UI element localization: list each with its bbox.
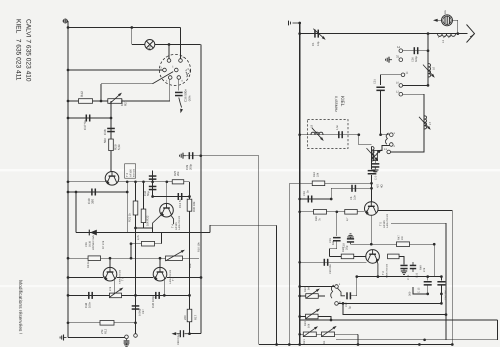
wire feedback row	[68, 294, 190, 296]
wire terminal 10	[403, 84, 428, 86]
junction	[342, 302, 345, 305]
junction	[456, 32, 459, 35]
wire IF column x111	[110, 101, 112, 172]
wire joining columns	[136, 227, 153, 229]
wire to terminal b	[135, 323, 137, 334]
wire bottom bus	[259, 344, 453, 346]
junction	[427, 84, 430, 87]
wire R22 row	[300, 295, 325, 297]
inductor L1 coil	[438, 34, 456, 37]
wire pin 2 to pot	[378, 146, 390, 151]
ground C39	[180, 153, 186, 159]
capacitor C40	[91, 189, 96, 196]
junction	[134, 227, 137, 230]
junction	[142, 180, 145, 183]
wire column x276 vertical	[276, 225, 278, 344]
junction	[427, 32, 430, 35]
wire to lamp	[132, 44, 145, 46]
svg-text:390: 390	[91, 199, 95, 204]
resistor R27 box	[108, 99, 122, 104]
junction	[440, 302, 443, 305]
svg-text:A 805 703 023: A 805 703 023	[386, 213, 389, 228]
DIN pin top-left	[167, 59, 171, 63]
svg-text:R17: R17	[194, 314, 198, 320]
wire main vertical x299	[299, 23, 301, 345]
wire R42 R27 row	[68, 100, 170, 102]
junction	[130, 26, 133, 29]
capacitor C41	[149, 175, 157, 180]
capacitor filter	[338, 131, 343, 138]
wire R9 volume row	[68, 257, 199, 259]
IF filter box KIEL 0.455MHz (dashed)	[308, 120, 349, 149]
wire L8 to C5	[371, 161, 373, 170]
wire T6 emitter row	[300, 261, 367, 263]
svg-text:L7: L7	[428, 121, 432, 125]
junction	[379, 133, 382, 136]
transformer pin 2	[390, 143, 394, 147]
pot R23 box	[306, 314, 319, 319]
junction	[298, 295, 301, 298]
svg-text:LA1: LA1	[148, 45, 152, 51]
svg-text:L1: L1	[441, 39, 445, 43]
wire T5 base row	[300, 211, 365, 213]
capacitor C49 to ground	[124, 339, 130, 347]
wire bus to DIN left pin	[68, 69, 163, 71]
svg-text:50µ: 50µ	[146, 191, 150, 196]
zener diode D1 BZY88	[89, 230, 97, 236]
wire T4 collector lead	[171, 216, 173, 224]
svg-text:L9: L9	[310, 124, 314, 128]
wire bottom corner to x201	[190, 333, 202, 335]
junction	[126, 191, 129, 194]
transistor T4	[160, 203, 174, 217]
label box T3	[125, 164, 136, 178]
capacitor C18	[347, 238, 354, 243]
wire T7 base up	[159, 258, 161, 267]
wire C37 row	[68, 117, 111, 119]
svg-text:AF106: AF106	[130, 169, 133, 177]
svg-text:KIEL: KIEL	[339, 96, 345, 107]
svg-text:4Ω: 4Ω	[380, 184, 384, 188]
ground C21	[401, 271, 407, 274]
junction	[134, 180, 137, 183]
svg-text:C20 63n: C20 63n	[329, 264, 332, 274]
junction	[151, 195, 154, 198]
junction	[445, 313, 448, 316]
transformer pin 1	[390, 133, 394, 137]
junction	[330, 319, 333, 322]
junction	[67, 117, 70, 120]
capacitor C6	[351, 185, 356, 192]
wire osc bus c	[167, 277, 201, 279]
junction	[113, 294, 116, 297]
junction	[298, 315, 301, 318]
wire right vertical x452	[451, 210, 453, 344]
wire C36 wiper lead	[179, 98, 182, 108]
ground below C32	[374, 167, 376, 169]
wire main vertical x201	[200, 45, 202, 334]
capacitor C44	[178, 193, 183, 200]
connector symbol top center	[289, 21, 300, 26]
wire C19 column	[336, 212, 338, 236]
svg-text:C 15: C 15	[418, 287, 421, 293]
junction	[67, 26, 70, 29]
wire to detector row	[433, 244, 435, 276]
svg-text:R30 33k: R30 33k	[192, 201, 196, 212]
capacitor C15	[424, 281, 432, 286]
transistor T3	[105, 172, 119, 186]
wire right vertical x446	[445, 223, 447, 340]
lamp LA1 dial illumination	[145, 40, 155, 50]
svg-text:L8: L8	[375, 152, 379, 156]
resistor R32 box	[141, 209, 146, 223]
svg-text:50n: 50n	[103, 138, 107, 143]
wire terminal 14 to C30	[403, 50, 428, 52]
svg-text:31: 31	[396, 55, 400, 59]
junction	[67, 191, 70, 194]
svg-text:Modifications réservées !: Modifications réservées !	[17, 280, 23, 334]
junction	[75, 191, 78, 194]
svg-text:25µ: 25µ	[346, 245, 349, 250]
wire pin1b to C17	[338, 288, 346, 296]
wire R8 row	[131, 243, 162, 245]
wire to C21	[399, 256, 404, 264]
wire C31 to IF row	[380, 91, 382, 135]
resistor R42 box	[79, 99, 93, 104]
svg-text:20k: 20k	[176, 171, 180, 176]
svg-text:63n: 63n	[332, 240, 335, 245]
junction	[67, 69, 70, 72]
junction	[188, 195, 191, 198]
wire R12 row	[68, 322, 136, 324]
wire to DIN pin 1	[168, 45, 170, 59]
junction	[370, 187, 373, 190]
inductor L8 coil	[372, 147, 375, 162]
resistor R27b box	[345, 210, 358, 215]
wire lamp to main vertical	[155, 44, 201, 46]
wire C5 to T5 collector	[371, 175, 373, 202]
svg-text:3,2n: 3,2n	[354, 194, 357, 200]
wire T5 emitter down	[370, 216, 372, 245]
junction	[355, 275, 358, 278]
wire T6 collector down	[113, 279, 115, 296]
resistor R13 box	[110, 293, 122, 298]
wire IF to L8	[359, 135, 372, 145]
junction	[288, 343, 291, 346]
wire lamp feed vertical	[131, 28, 133, 45]
transistor T5	[364, 202, 378, 216]
svg-text:A 805 703 023: A 805 703 023	[385, 263, 388, 278]
junction	[165, 180, 168, 183]
svg-text:803 023: 803 023	[132, 168, 135, 177]
wire column x135 vertical	[135, 182, 137, 323]
junction	[163, 294, 166, 297]
wire C40 row	[68, 191, 127, 193]
wire R8 to R9 row	[130, 244, 132, 259]
svg-text:R27: R27	[124, 100, 128, 106]
terminal 12	[399, 92, 403, 96]
inductor L6 coil	[428, 64, 431, 78]
capacitor C39	[189, 152, 194, 159]
wire column x143 vertical	[143, 182, 145, 228]
wire C15 bottom lead	[427, 285, 429, 294]
junction	[370, 182, 373, 185]
capacitor C18 with ground	[350, 243, 352, 245]
junction	[298, 343, 301, 346]
junction	[159, 257, 162, 260]
wire T3 to R25 row	[119, 181, 190, 183]
junction	[451, 343, 454, 346]
wire to DIN pin 3	[180, 28, 182, 59]
wire bottom frame lower	[336, 339, 498, 341]
wire C39 row	[185, 155, 201, 157]
wire bottom left bus	[68, 337, 125, 339]
svg-text:4,7: 4,7	[346, 217, 349, 221]
svg-text:84k: 84k	[308, 285, 311, 290]
capacitor C48	[88, 292, 93, 299]
svg-text:R7 47k: R7 47k	[102, 240, 105, 249]
wire to AGC row	[152, 228, 154, 233]
capacitor C30	[414, 47, 419, 54]
resistor R25 box	[172, 180, 184, 184]
svg-text:500p: 500p	[415, 56, 418, 62]
junction	[67, 180, 70, 183]
pot R10 box	[166, 256, 183, 260]
wire C16 top lead	[440, 277, 442, 281]
terminal 13	[387, 150, 391, 154]
arrow tip C36 lead	[179, 109, 183, 114]
svg-text:14: 14	[397, 45, 401, 49]
transformer winding bracket	[385, 133, 388, 144]
winding bracket b	[331, 285, 334, 298]
DIN speaker/supply connector BU1 (dashed)	[159, 54, 190, 85]
wire emitter row	[351, 243, 435, 245]
junction	[440, 275, 443, 278]
junction	[298, 22, 301, 25]
wire pot row bottom	[300, 333, 358, 335]
wire T4 emitter lead	[153, 215, 162, 228]
capacitor C42	[149, 186, 157, 191]
svg-text:C46 0,5µ: C46 0,5µ	[177, 334, 180, 345]
junction	[426, 293, 429, 296]
svg-text:R31 1k: R31 1k	[128, 213, 132, 222]
capacitor C36	[175, 92, 183, 97]
wire left supply bus vertical	[67, 21, 69, 338]
wire AF takeoff row	[343, 303, 446, 314]
capacitor C21	[400, 265, 407, 270]
svg-text:4,7k: 4,7k	[137, 234, 140, 240]
resistor R29 box	[109, 139, 114, 151]
wire osc bus b	[117, 277, 153, 279]
svg-text:5µ: 5µ	[349, 306, 352, 309]
svg-text:C13 5n: C13 5n	[178, 199, 182, 208]
resistor R26 box	[314, 210, 327, 215]
wire detector row	[357, 276, 442, 278]
svg-text:BZY88/C 5V6: BZY88/C 5V6	[92, 235, 95, 250]
junction	[298, 210, 301, 213]
resistor R17 box	[187, 309, 192, 322]
wire T7 collector down	[163, 279, 165, 296]
wire R3 to C32	[374, 161, 376, 164]
junction	[100, 100, 103, 103]
svg-text:C 22: C 22	[416, 272, 419, 278]
terminal 31	[399, 58, 403, 62]
wire T6 collector down	[376, 262, 379, 277]
junction	[427, 49, 430, 52]
terminal 11	[401, 73, 405, 77]
wire C15 return	[413, 287, 428, 294]
DIN pin center	[175, 68, 179, 72]
junction	[298, 133, 301, 136]
wire T5 output line	[378, 209, 452, 211]
junction	[188, 332, 191, 335]
transformer pin Bb	[335, 302, 339, 306]
wire column x189 vertical	[189, 182, 191, 334]
svg-text:10k: 10k	[308, 323, 311, 328]
ground chassis	[60, 335, 66, 341]
svg-text:300: 300	[409, 291, 412, 296]
junction	[370, 243, 373, 246]
capacitor C19	[333, 237, 341, 242]
resistor R8 box	[142, 241, 155, 246]
svg-text:C31: C31	[374, 79, 377, 84]
svg-text:C 5 47n: C 5 47n	[375, 170, 378, 180]
junction	[134, 294, 137, 297]
wire terminal 12 to L7	[403, 94, 424, 116]
junction	[357, 133, 360, 136]
wire terminal 11 to C31	[381, 75, 402, 85]
junction	[200, 276, 203, 279]
junction	[130, 257, 133, 260]
DIN pin bottom-right	[177, 76, 181, 80]
svg-text:T 6: T 6	[381, 271, 385, 275]
svg-text:C45 100p: C45 100p	[151, 295, 155, 308]
antenna symbol	[467, 25, 475, 43]
wire line B	[391, 222, 446, 224]
wire pots to bottom bus	[357, 334, 359, 344]
svg-text:C1: C1	[311, 42, 315, 46]
svg-text:R10 10k: R10 10k	[198, 242, 201, 252]
junction	[168, 43, 171, 46]
capacitor C5	[368, 170, 376, 175]
junction	[298, 32, 301, 35]
svg-text:R42: R42	[80, 91, 84, 97]
wire C16 bottom lead	[440, 285, 442, 303]
wire L7 to terminal 13	[391, 129, 425, 152]
junction	[423, 338, 426, 341]
transistor T6 left	[103, 267, 117, 281]
wire column x258 vertical	[258, 156, 260, 345]
svg-text:R9 1k: R9 1k	[87, 261, 90, 268]
wire T4 base vertical	[166, 182, 168, 204]
junction	[330, 198, 333, 201]
wire C17 to detector row	[350, 277, 356, 296]
capacitor C38	[107, 128, 115, 133]
wire jack left lead	[438, 19, 442, 21]
junction	[298, 333, 301, 336]
trimmer capacitor C1	[313, 29, 326, 41]
svg-text:47k: 47k	[423, 267, 426, 272]
wire column x289 vertical	[288, 183, 290, 344]
wire jack right lead	[453, 19, 458, 21]
transformer pin 1b	[335, 285, 339, 289]
wire row to x258	[201, 155, 259, 157]
wire antenna column x428	[427, 34, 429, 86]
resistor R9 box	[88, 256, 101, 261]
junction	[67, 321, 70, 324]
svg-text:200p: 200p	[189, 163, 193, 170]
wire R8 to AGC row	[161, 233, 163, 244]
resistor R3 box	[373, 151, 378, 161]
wire base bus into T3	[68, 181, 105, 183]
antenna jack BU2 (double circle)	[442, 15, 453, 26]
svg-text:T 6: T 6	[121, 277, 125, 281]
wire osc bus a	[68, 277, 103, 279]
wire DIN pin to C36	[178, 79, 180, 90]
resistor R30 box	[187, 199, 192, 211]
resistor R24 box	[312, 181, 325, 186]
terminal 10	[399, 84, 403, 88]
junction	[134, 321, 137, 324]
junction	[298, 198, 301, 201]
capacitor C45	[155, 292, 160, 299]
wire R23 row	[300, 317, 331, 321]
resistor R28 box	[341, 254, 354, 259]
capacitor C33	[308, 196, 313, 203]
wire C19 to T6 base	[330, 241, 337, 256]
wire T6 base row	[330, 255, 366, 257]
arrow jack	[433, 19, 438, 22]
wire top bus to DIN pin	[68, 27, 181, 29]
svg-text:LG: LG	[443, 10, 447, 14]
wire to DIN pin bottom-left	[169, 79, 171, 101]
DIN pin bottom-left	[168, 76, 172, 80]
DIN pin top-right	[179, 59, 183, 63]
wire bottom frame top	[301, 319, 498, 321]
resistor R47 box	[397, 242, 410, 247]
junction	[67, 100, 70, 103]
svg-text:22k: 22k	[317, 172, 320, 177]
wire emitter branch x127	[126, 182, 128, 233]
svg-text:0,455MHz: 0,455MHz	[334, 96, 338, 112]
wire R24 row	[289, 182, 371, 184]
svg-text:47k: 47k	[109, 286, 112, 291]
junction	[188, 294, 191, 297]
resistor R12 box	[100, 321, 114, 326]
junction	[275, 343, 278, 346]
svg-text:R21: R21	[303, 339, 306, 344]
wire jack to bus	[457, 20, 459, 33]
wire C33 row	[300, 198, 332, 200]
capacitor C20	[324, 259, 329, 266]
svg-text:12p: 12p	[317, 41, 320, 46]
wire C44 row	[153, 196, 190, 198]
wire antenna bus	[300, 33, 468, 35]
svg-text:KIEL 7 635 023 411: KIEL 7 635 023 411	[15, 19, 22, 81]
resistor R31 box	[133, 201, 138, 215]
svg-text:CALVI 7 635 023 410: CALVI 7 635 023 410	[25, 19, 32, 82]
terminal output b	[134, 334, 138, 338]
supply terminal symbol top-left	[63, 19, 69, 24]
wire right frame vertical	[497, 320, 499, 340]
transistor T6	[366, 250, 380, 264]
junction	[67, 294, 70, 297]
capacitor C46 0.5u with chassis arrow	[172, 330, 190, 337]
DIN pin left	[163, 68, 167, 72]
wire horizontal to diagonal	[101, 83, 153, 85]
junction	[130, 242, 133, 245]
DIN keyway (dashed)	[186, 69, 190, 77]
